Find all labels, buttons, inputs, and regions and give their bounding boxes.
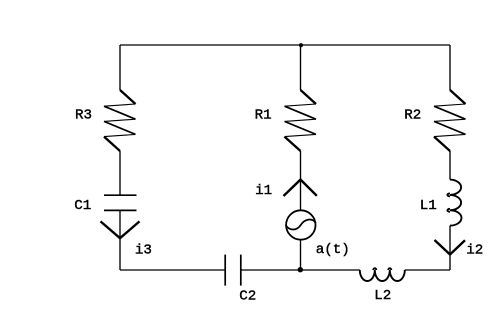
svg-text:R1: R1: [255, 108, 272, 124]
svg-text:L1: L1: [420, 198, 437, 214]
svg-text:C1: C1: [74, 198, 91, 214]
svg-text:i3: i3: [135, 243, 152, 259]
svg-text:i2: i2: [466, 243, 483, 259]
svg-text:R3: R3: [75, 108, 92, 124]
svg-text:i1: i1: [255, 183, 272, 199]
svg-text:L2: L2: [374, 288, 391, 304]
svg-text:C2: C2: [239, 288, 256, 304]
svg-text:R2: R2: [404, 108, 421, 124]
svg-text:a(t): a(t): [316, 242, 350, 258]
